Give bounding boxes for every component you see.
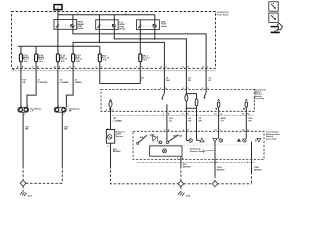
svg-text:1: 1: [141, 80, 142, 82]
svg-text:3: 3: [24, 114, 25, 116]
wire x196 down to box3: [196, 111, 198, 131]
svg-text:2: 2: [163, 113, 164, 115]
svg-text:LG: LG: [169, 121, 172, 123]
svg-text:1: 1: [58, 106, 59, 108]
switch flash contact left (x164): [160, 88, 167, 100]
relay K2 label: [120, 22, 127, 31]
svg-text:Relay: Relay: [120, 29, 127, 31]
label circuit F2: [38, 80, 48, 84]
node junction dot r2L: [99, 42, 101, 44]
contact circle small left: [159, 141, 162, 144]
label circuit x196: [199, 118, 203, 122]
svg-text:10 A: 10 A: [76, 60, 81, 63]
svg-text:1: 1: [164, 129, 165, 131]
label circuit 450 BK/WH: [113, 148, 121, 153]
wire dimmer box exit: [180, 156, 182, 166]
wire turn left exit down: [214, 160, 216, 176]
relay K3 DRL: [137, 20, 160, 30]
wire mid rail with drops to fuse F4 and exit x164: [73, 42, 164, 68]
wire x246 down to box3: [245, 111, 247, 131]
label circuit 194 LG: [169, 117, 173, 122]
wire F5 exit down to jog: [139, 62, 141, 84]
label headlamp RF: [69, 108, 81, 112]
node dot r3R on rail: [154, 38, 156, 40]
label circuit x218: [221, 118, 226, 122]
svg-text:8: 8: [96, 67, 97, 69]
label circuit 250 BK: [64, 126, 68, 130]
wire turn right exit down: [251, 160, 253, 173]
node splice diamond left: [20, 180, 26, 186]
svg-text:PK: PK: [188, 121, 191, 123]
label circuit F4: [75, 80, 83, 84]
callout headlamp dimmer switch: [190, 148, 215, 153]
wire exit x164 to dimmer box: [163, 68, 165, 90]
connector oval feed (DRL sense): [109, 100, 112, 110]
icon zoom-out button: [269, 2, 278, 11]
wire bus drop relay2 left: [98, 15, 100, 20]
svg-text:GY: GY: [208, 80, 212, 82]
fuse F6 DRL 1: [98, 54, 109, 62]
svg-text:J: J: [207, 67, 208, 69]
wire ground bus left (dashed): [26, 182, 62, 184]
wire F4 exit with jog to headlamp RF pin2: [66, 62, 73, 108]
ground G104: [178, 191, 191, 198]
wire bus drop to fuse F2: [35, 46, 37, 54]
switch dimmer blade 2: [166, 135, 182, 144]
wire sensor ground lead: [110, 143, 112, 166]
label ambient light sensor: [116, 130, 125, 138]
wire relay1 right pin L-run to x206: [73, 29, 206, 68]
svg-text:A7B: A7B: [173, 135, 177, 138]
label circuit F1: [22, 80, 27, 84]
wire relay1 left pin down to fuse bus and fuse F3: [57, 29, 59, 54]
connector oval feed turn B+ right: [243, 99, 247, 111]
fuse F5 DRL 2: [139, 54, 150, 62]
svg-text:Assembly: Assembly: [266, 138, 277, 141]
svg-text:10: 10: [17, 67, 19, 69]
svg-text:01: 01: [214, 113, 216, 115]
svg-text:8: 8: [177, 158, 178, 160]
wire bus drop relay1 left: [57, 15, 59, 20]
wire headlamp RF ground lead: [61, 112, 63, 166]
svg-text:Sensor: Sensor: [116, 136, 124, 138]
wire exit x186 to dimmer box: [185, 68, 187, 90]
headlamp RF capsule: [54, 106, 68, 116]
svg-text:J1: J1: [220, 113, 222, 115]
label circuit sensor feed: [113, 118, 123, 122]
svg-text:L-GN/BK: L-GN/BK: [113, 121, 123, 123]
label circuit 150 BK: [25, 126, 29, 130]
fuse F2 RT HI BEAM: [35, 54, 45, 63]
node splice diamond right: [212, 181, 218, 187]
contact nabla far right: [256, 139, 261, 143]
ground G101: [20, 191, 32, 198]
svg-text:BK: BK: [64, 129, 68, 131]
svg-text:(29B): (29B): [150, 134, 155, 136]
svg-text:10 A: 10 A: [61, 60, 66, 63]
svg-text:BK/WH: BK/WH: [217, 169, 225, 171]
relay K2 low beam: [96, 20, 119, 30]
label circuit x186: [188, 117, 191, 122]
wire relay2 right pin rail to x186: [114, 29, 186, 68]
ambient light sensor box: [106, 128, 114, 147]
label circuit dimmer ground: [183, 163, 191, 168]
svg-text:J: J: [220, 129, 221, 131]
node splice diamond mid (G bus): [178, 181, 184, 187]
relay K3 label: [161, 21, 168, 27]
connector dotted line below box2: [111, 114, 254, 116]
label circuit exit x186: [188, 77, 191, 82]
switch flash contact right (x206): [202, 88, 209, 99]
svg-text:6: 6: [247, 162, 248, 164]
wire F1 exit down to headlamp LF: [20, 62, 22, 108]
svg-text:BK/WH: BK/WH: [183, 167, 191, 169]
wire diamond to ground G101: [22, 186, 24, 191]
wire F6 exit down to jog: [99, 62, 101, 84]
svg-text:PK: PK: [249, 121, 252, 123]
label splice S121: [141, 78, 144, 82]
svg-text:9: 9: [202, 88, 203, 90]
wire bus end down to fuse F6: [99, 46, 101, 54]
contact triangle open (from x196): [197, 131, 205, 142]
svg-text:02: 02: [242, 129, 244, 131]
svg-text:BK/WH: BK/WH: [254, 169, 262, 171]
svg-text:PK: PK: [188, 80, 191, 82]
svg-text:DK: DK: [199, 121, 203, 123]
wire bus drop to fuse F1: [20, 46, 22, 54]
svg-text:A2: A2: [12, 68, 14, 71]
turn signal multifunction switch box (dashed): [133, 131, 264, 159]
svg-text:10: 10: [182, 88, 184, 90]
svg-text:D-GN/WH: D-GN/WH: [38, 82, 48, 84]
mechanical link dotted: [150, 144, 248, 146]
svg-text:01: 01: [215, 129, 217, 131]
wire ground bus right (dashed): [184, 183, 252, 185]
label circuit turn right ground: [254, 167, 262, 171]
label circuit exit x206: [208, 78, 212, 82]
svg-text:10 A: 10 A: [39, 60, 44, 63]
wire bus drop relay2 right: [113, 15, 115, 20]
indicator oval and resistor network (x186): [182, 88, 198, 111]
svg-text:Fuse Block: Fuse Block: [217, 14, 230, 17]
wire bus drop relay3 right: [154, 15, 156, 20]
node dot r3L crossing rail 2: [139, 42, 141, 44]
wire dimmer return into box3: [166, 104, 168, 141]
svg-text:G101: G101: [28, 195, 33, 197]
svg-text:15: 15: [182, 67, 184, 69]
label box2 right: [254, 89, 266, 100]
svg-text:5: 5: [211, 162, 212, 164]
wire from connector to bus: [57, 10, 59, 15]
contact circle mid (from x186): [183, 128, 192, 142]
svg-text:(29): (29): [179, 136, 183, 138]
label Underhood Fuse Block: [217, 11, 230, 16]
wire headlamp LF ground lead: [22, 112, 24, 166]
wire dimmer ground dashed: [180, 166, 182, 181]
wire relay3 left pin down to fuse F5: [139, 30, 141, 54]
svg-text:10 A: 10 A: [24, 60, 29, 63]
svg-text:BK: BK: [25, 129, 29, 131]
svg-text:12: 12: [54, 67, 56, 69]
svg-text:9: 9: [32, 67, 33, 69]
underhood fuse block (dashed outline): [12, 12, 216, 69]
svg-text:10 A: 10 A: [103, 59, 108, 62]
label circuit exit x164: [166, 78, 170, 82]
svg-text:F1: F1: [112, 110, 114, 112]
multifunction switch upper box (dashed): [101, 90, 254, 112]
label circuit turn left ground: [217, 167, 225, 171]
node junction dot r1L on fuse bus: [57, 45, 59, 47]
label circuit x246: [249, 118, 254, 122]
wire F2 exit with jog to headlamp LF pin2: [27, 62, 36, 108]
contact group turn right: filled triangle + circle: [237, 129, 250, 142]
fuse F3 LT LO HDM: [56, 54, 67, 63]
wire relay3 right pin to rail: [154, 30, 156, 39]
svg-text:BK/WH: BK/WH: [113, 151, 121, 153]
wire sensor ground dashed to bus: [111, 166, 179, 184]
svg-text:2: 2: [27, 106, 28, 108]
label box3 right: [266, 132, 280, 141]
wire fuse bus: [18, 45, 100, 47]
switch dimmer blade 1: [137, 135, 147, 144]
wire bus drop relay1 right: [72, 15, 74, 20]
svg-text:02: 02: [242, 113, 244, 115]
fuse block connector line (dotted): [12, 70, 216, 72]
svg-text:Relay: Relay: [161, 26, 168, 28]
svg-text:8: 8: [160, 88, 161, 90]
flag contact symbol: [150, 134, 158, 141]
connector oval feed turn B+ left: [215, 99, 219, 111]
fuse F4 RT LO HDM: [72, 54, 83, 63]
wire x218 down to box3: [218, 111, 220, 131]
wire F3 exit down to headlamp RF: [57, 62, 59, 108]
icon hand cursor: [271, 23, 283, 33]
label headlamp LF: [31, 108, 43, 112]
wire turn right contact down: [251, 142, 253, 160]
wire exit x206 to dimmer box: [205, 68, 207, 90]
wire turn left contact down: [214, 142, 216, 160]
svg-text:16: 16: [202, 67, 204, 69]
svg-text:3: 3: [63, 114, 64, 116]
wire oval down to sensor: [110, 107, 112, 129]
svg-text:13: 13: [69, 67, 71, 69]
label circuit F3: [60, 80, 70, 84]
wire relay2 left pin to mid rail: [98, 29, 100, 42]
wire RF ground dashed continuation: [61, 166, 63, 183]
wire LF ground dashed continuation: [22, 166, 24, 181]
connector dotted line below box3: [137, 161, 252, 163]
svg-text:10 A: 10 A: [143, 59, 148, 62]
relay K1 label: [77, 22, 84, 31]
node dot r3L crossing rail 1: [139, 38, 141, 40]
svg-text:Relay: Relay: [77, 28, 84, 30]
relay K1 high beam: [54, 20, 77, 30]
wire jog joining F6 to F5: [100, 83, 141, 85]
svg-text:WH: WH: [166, 80, 170, 82]
svg-text:L-GN/BK: L-GN/BK: [60, 82, 70, 84]
node bus B+: [58, 14, 155, 16]
connector S (top feed): [54, 5, 62, 10]
svg-text:K1: K1: [247, 113, 249, 115]
svg-text:GY: GY: [221, 121, 225, 123]
svg-text:1: 1: [21, 106, 22, 108]
contact group turn left: nabla + circle: [213, 129, 223, 142]
wire x186 down to box3: [185, 111, 187, 131]
inner dimmer switch solid box: [150, 146, 182, 156]
wire diamond mid to ground G104: [180, 186, 182, 190]
headlamp LF capsule: [18, 106, 29, 116]
icon zoom-in button: [269, 13, 278, 22]
svg-text:Assembly: Assembly: [254, 97, 265, 100]
svg-text:TN/WH: TN/WH: [75, 82, 83, 84]
fuse F1 LT HI BEAM: [19, 54, 29, 63]
svg-text:6: 6: [136, 67, 137, 69]
